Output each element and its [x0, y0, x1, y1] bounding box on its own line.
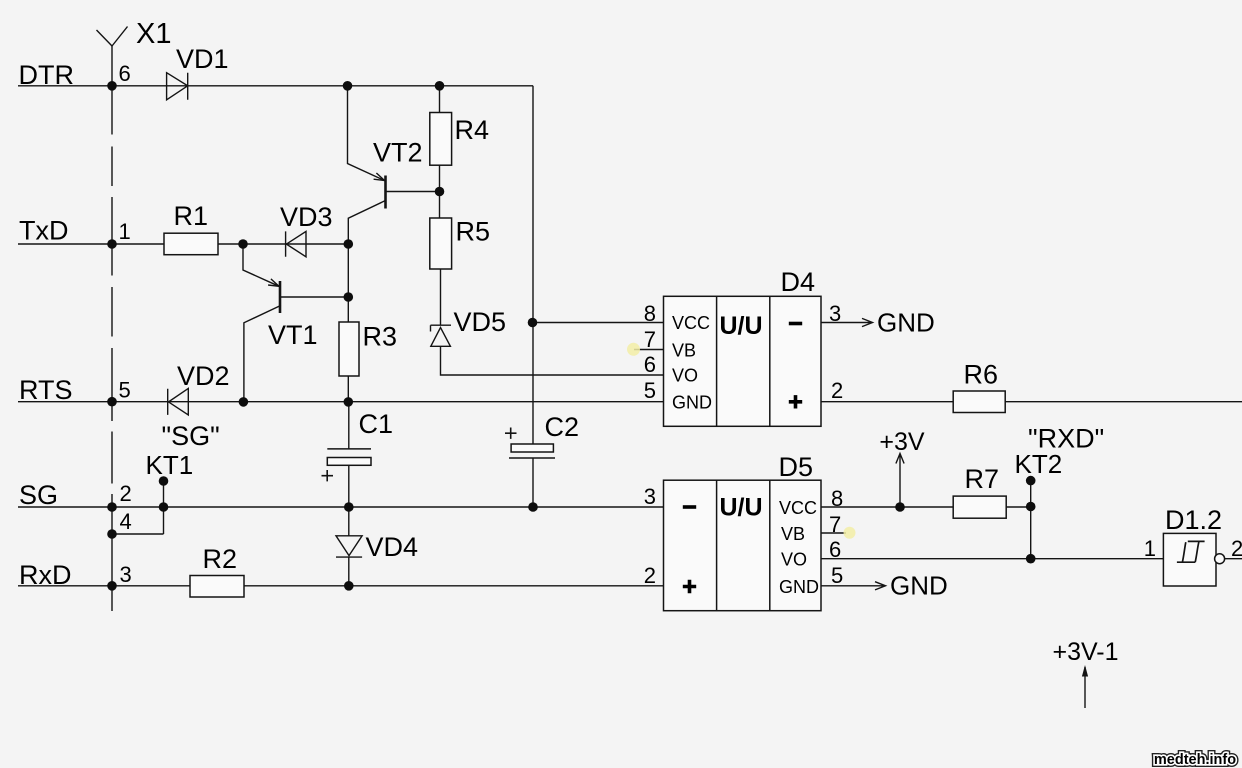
node C1 / VD4 / SG — [344, 502, 354, 512]
node R4 / R5 / VT2 base — [435, 187, 445, 197]
svg-text:"RXD": "RXD" — [1028, 424, 1104, 454]
resistor R4 — [430, 113, 452, 166]
wire VD4 bottom drop — [348, 557, 350, 586]
resistor R5 — [430, 218, 452, 269]
wire RTS rail — [18, 401, 664, 403]
D4 minus mark — [789, 322, 802, 326]
svg-text:R1: R1 — [174, 201, 209, 231]
wire RxD rail — [18, 585, 664, 587]
svg-text:GND: GND — [779, 577, 819, 597]
wire R3 bottom drop — [347, 376, 349, 402]
svg-text:TxD: TxD — [19, 216, 69, 246]
wire VT2 base link — [386, 191, 440, 193]
svg-text:6: 6 — [644, 352, 656, 377]
diode VD4 — [336, 536, 362, 557]
wire VT2 emitter drop — [348, 86, 385, 181]
svg-text:VB: VB — [781, 524, 805, 544]
svg-text:VD4: VD4 — [366, 532, 419, 562]
wire D5 pin5 gnd arrow — [821, 582, 886, 590]
svg-text:2: 2 — [831, 378, 843, 403]
node D5 pin8 / +3V / R7 — [895, 502, 905, 512]
resistor R3 — [339, 322, 359, 376]
IC D5 box — [664, 480, 822, 611]
svg-text:KT1: KT1 — [146, 450, 194, 480]
zener diode VD5 — [431, 325, 452, 346]
wire R6 output — [1005, 401, 1242, 403]
wire VD4 top drop — [348, 507, 350, 536]
labels: net names — [19, 60, 75, 590]
wire D1.2 output — [1225, 558, 1242, 560]
node VT1 / R3 top — [344, 292, 354, 302]
svg-text:5: 5 — [644, 378, 656, 403]
D5 plus mark — [683, 580, 696, 593]
svg-text:U/U: U/U — [720, 312, 763, 340]
node X1 pin4 — [107, 529, 117, 539]
labels: D5 pin names — [779, 498, 819, 597]
resistor R2 — [190, 576, 244, 598]
svg-text:X1: X1 — [136, 18, 171, 50]
wire VT1 base drop — [243, 244, 279, 286]
labels: D4 pin numbers — [644, 301, 844, 403]
wire DTR rail — [18, 85, 533, 87]
IC D4 box — [664, 296, 822, 426]
svg-text:6: 6 — [829, 537, 841, 562]
svg-text:3: 3 — [644, 484, 656, 509]
capacitor C2 — [505, 428, 555, 459]
connector X1 dashed body — [111, 46, 113, 611]
resistor R7 — [953, 496, 1006, 518]
node R7 / KT2 — [1026, 502, 1036, 512]
wire KT1 vertical — [163, 481, 165, 534]
diode VD1 — [167, 73, 188, 100]
svg-text:5: 5 — [831, 563, 843, 588]
node KT2 terminal — [1026, 476, 1036, 486]
highlight dot D5 pin7 — [844, 527, 856, 539]
node X1 pin3 — [107, 581, 117, 591]
labels: connector pin numbers — [119, 61, 132, 587]
node VD2 / VT1 collector — [239, 397, 249, 407]
wire R7 to KT2 — [1006, 506, 1030, 508]
svg-text:8: 8 — [831, 486, 843, 511]
transistor VT2 — [374, 173, 386, 209]
node DTR / VT2 emitter — [343, 81, 353, 91]
node VD3 / VT2 collector — [344, 239, 354, 249]
wire C1 top drop — [348, 402, 350, 449]
node pin8 / C2 vertical — [528, 318, 538, 328]
labels: D4 pin names — [672, 313, 712, 413]
resistor R1 — [164, 233, 218, 255]
D4 plus mark — [789, 395, 802, 408]
svg-text:1: 1 — [1144, 536, 1156, 561]
wire C2 long vertical — [532, 86, 534, 444]
wire pin4 link — [112, 533, 164, 535]
svg-text:VT1: VT1 — [268, 320, 318, 350]
power +3V-1 arrow — [1084, 667, 1086, 708]
wire VT2 collector drop — [348, 201, 385, 245]
svg-text:2: 2 — [1231, 536, 1242, 561]
svg-text:DTR: DTR — [19, 60, 75, 90]
svg-text:6: 6 — [119, 61, 131, 86]
wire VT1 base link — [280, 296, 348, 298]
svg-text:R6: R6 — [964, 360, 999, 390]
node X1 pin6 — [107, 81, 117, 91]
svg-text:D4: D4 — [781, 267, 816, 297]
svg-text:RTS: RTS — [19, 375, 73, 405]
capacitor C1 — [322, 449, 372, 482]
svg-text:7: 7 — [644, 327, 656, 352]
node X1 pin2 — [107, 502, 117, 512]
wire VD5 to pin6 — [441, 346, 664, 375]
node KT1 / SG — [159, 502, 169, 512]
watermark medteh.info — [1154, 752, 1236, 768]
labels: component designators — [136, 18, 1242, 666]
svg-text:VD5: VD5 — [454, 307, 507, 337]
svg-text:R4: R4 — [455, 115, 490, 145]
svg-text:R5: R5 — [456, 217, 491, 247]
svg-text:VCC: VCC — [672, 313, 710, 333]
svg-text:C1: C1 — [359, 409, 394, 439]
svg-text:SG: SG — [19, 480, 58, 510]
highlight dot D4 pin7 — [627, 343, 640, 356]
svg-text:+3V-1: +3V-1 — [1052, 638, 1118, 666]
wire C2 bottom drop — [532, 458, 534, 507]
svg-text:GND: GND — [672, 393, 712, 413]
svg-text:D5: D5 — [779, 452, 814, 482]
svg-text:D1.2: D1.2 — [1165, 505, 1222, 535]
svg-text:"SG": "SG" — [162, 421, 220, 451]
diode VD2 — [168, 388, 189, 415]
svg-text:R3: R3 — [363, 322, 398, 352]
svg-text:1: 1 — [119, 219, 131, 244]
svg-text:KT2: KT2 — [1015, 449, 1063, 479]
svg-text:3: 3 — [120, 562, 132, 587]
svg-text:7: 7 — [829, 512, 841, 537]
IC D1.2 box — [1163, 533, 1224, 586]
diode VD3 — [286, 231, 306, 256]
wire D4 pin8 — [533, 322, 664, 324]
node R1 / VT1 base — [238, 239, 248, 249]
svg-text:2: 2 — [644, 563, 656, 588]
wire D4 pin3 gnd arrow — [821, 318, 873, 326]
power +3V arrow — [896, 454, 904, 508]
svg-text:VD3: VD3 — [280, 202, 333, 232]
svg-text:U/U: U/U — [720, 494, 763, 522]
wire SG rail — [18, 506, 664, 508]
node X1 pin5 — [107, 397, 117, 407]
node KT2 / pin6 wire — [1026, 554, 1036, 564]
wire TxD rail — [18, 243, 348, 245]
wire D4 pin2 to R6 — [821, 401, 953, 403]
svg-text:2: 2 — [120, 481, 132, 506]
node KT1 terminal — [159, 476, 169, 486]
svg-text:3: 3 — [829, 301, 841, 326]
svg-text:VO: VO — [672, 366, 698, 386]
labels: U/U converter marks — [720, 312, 763, 522]
wire D5 pin8 to R7 — [821, 506, 953, 508]
wire R5-VD5 link — [440, 269, 442, 325]
svg-text:4: 4 — [120, 509, 132, 534]
wire R4-R5 link — [439, 165, 441, 218]
node DTR / R4 — [435, 81, 445, 91]
D5 minus mark — [683, 505, 696, 509]
node R3 bottom / C1 — [344, 397, 354, 407]
svg-text:+3V: +3V — [879, 428, 925, 456]
wire VT1 collector drop — [244, 305, 281, 402]
svg-text:5: 5 — [119, 378, 131, 403]
svg-text:VD1: VD1 — [176, 44, 229, 74]
resistor R6 — [953, 391, 1005, 413]
transistor VT1 — [268, 279, 280, 313]
svg-text:VB: VB — [672, 341, 696, 361]
D1.2 hysteresis symbol — [1177, 541, 1205, 562]
svg-text:VO: VO — [781, 550, 807, 570]
svg-text:R2: R2 — [203, 544, 238, 574]
node VD4 / RxD — [344, 581, 354, 591]
power +3V-1 arrowhead — [1082, 665, 1088, 677]
svg-text:GND: GND — [877, 308, 935, 338]
svg-text:VD2: VD2 — [177, 361, 230, 391]
svg-text:C2: C2 — [545, 412, 580, 442]
wire C1 bottom drop — [348, 465, 350, 507]
labels: D5 pin numbers — [644, 484, 844, 588]
node C2 / SG — [528, 502, 538, 512]
svg-text:RxD: RxD — [19, 560, 72, 590]
svg-text:R7: R7 — [965, 464, 1000, 494]
svg-text:GND: GND — [890, 571, 948, 601]
svg-text:VT2: VT2 — [373, 138, 423, 168]
node X1 pin1 — [107, 239, 117, 249]
wire D5 pin7 stub — [821, 532, 846, 534]
wire D5 pin6 to D1.2 — [821, 558, 1163, 560]
wire KT2 vertical — [1030, 481, 1032, 559]
connector X1 fork symbol — [97, 27, 128, 47]
wire D4 pin7 stub — [634, 349, 664, 351]
svg-text:VCC: VCC — [779, 498, 817, 518]
wire node TxD to R3 — [347, 244, 349, 322]
svg-text:8: 8 — [644, 301, 656, 326]
wire R4 top drop — [439, 86, 441, 113]
svg-text:medteh.info: medteh.info — [1154, 752, 1236, 768]
